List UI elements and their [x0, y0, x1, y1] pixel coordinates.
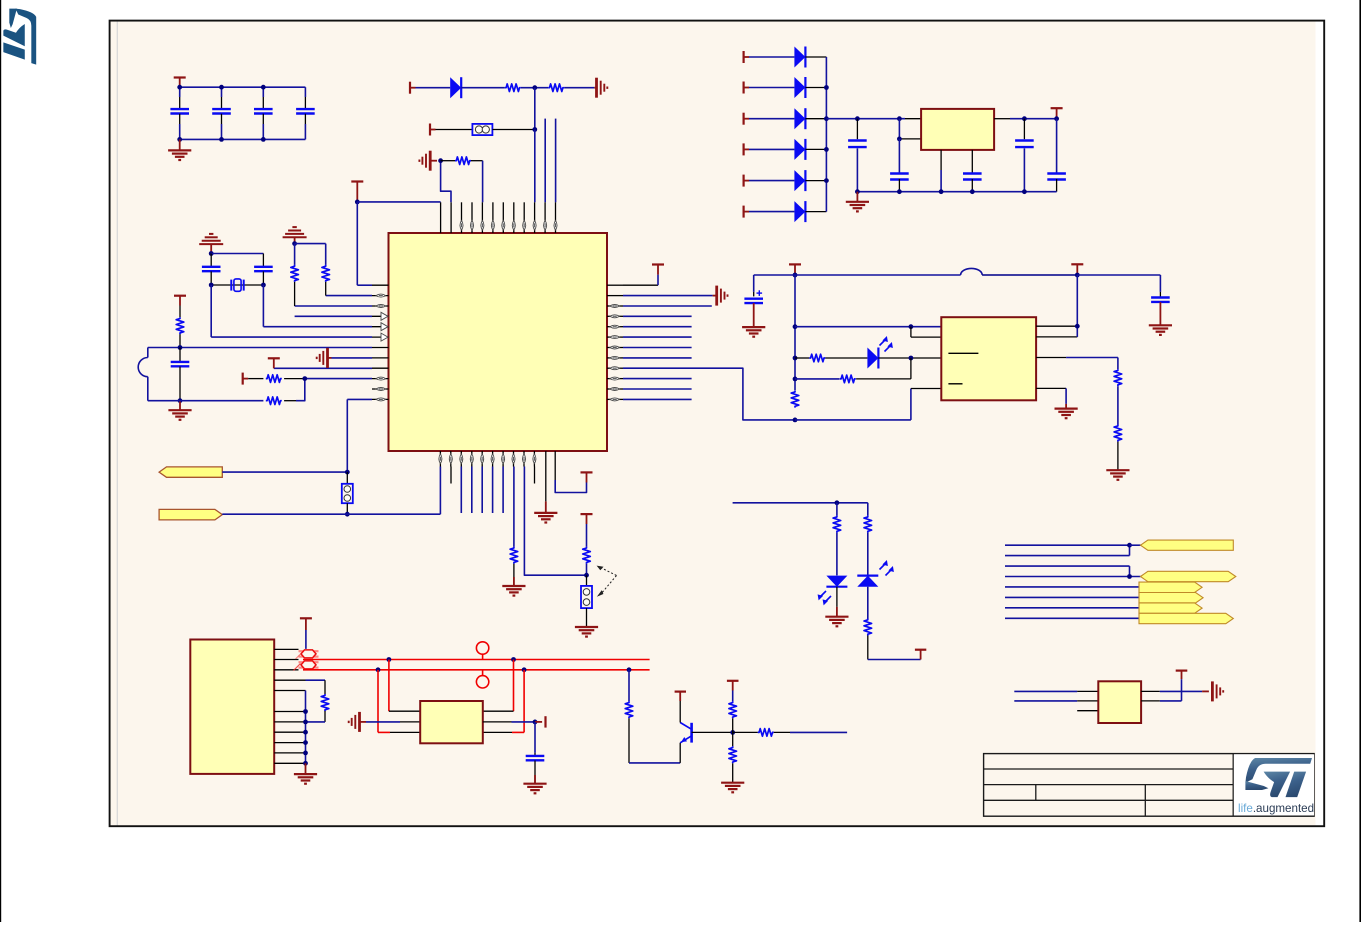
diode D1	[794, 47, 805, 68]
wire stub to D5	[749, 180, 794, 182]
wire U1 left row10 from R7	[305, 378, 372, 380]
wire R8 elbow up	[296, 379, 305, 401]
ground connector	[294, 763, 317, 783]
resistor R4	[322, 244, 330, 296]
wire floating U1 top pin 12	[555, 119, 557, 203]
wire row1 to flag	[1130, 544, 1141, 546]
power stub diode D4	[744, 143, 750, 155]
ground divider	[1106, 470, 1129, 480]
wire U1 right row4	[623, 315, 692, 317]
wire U1 bottom pin10 stub	[534, 467, 536, 484]
power stub jumper row	[430, 124, 436, 136]
earth ground crystal left	[199, 234, 223, 254]
node bottom rail junctions	[855, 189, 1027, 194]
node row10 junction	[302, 376, 307, 381]
node diode rail junctions	[824, 85, 829, 183]
wire flag1 to node	[222, 471, 347, 473]
capacitor C2	[212, 87, 231, 139]
wire U1 left row2 from R4	[326, 295, 372, 297]
wire U3 pin3 to divider	[1036, 358, 1118, 370]
node opto bus J3	[793, 356, 798, 361]
ground regulator rail	[846, 192, 869, 212]
power flag USB VBUS	[300, 618, 312, 649]
wire R1 to node	[521, 87, 548, 89]
power bars symbol right of R2	[597, 78, 608, 98]
power flag T1	[581, 471, 593, 473]
wire R19 to bus	[306, 711, 326, 722]
wire U3 pin4 to ground	[1036, 388, 1066, 408]
power flag U5	[1141, 671, 1187, 701]
node crystal top	[209, 251, 214, 256]
node harness row4 junction	[1127, 574, 1132, 579]
resistor R8	[266, 397, 296, 405]
wire crystal row	[211, 284, 263, 286]
power flag U2 output	[1051, 108, 1063, 119]
wire U2 bottom pin1	[940, 150, 942, 192]
wire R18 to power	[868, 659, 921, 661]
wire crystal left to U1 row6	[210, 285, 212, 337]
wire LED1 to opto pin3	[878, 357, 941, 359]
wire U5 input2	[1014, 700, 1098, 702]
node cap bank bottom junctions	[177, 137, 265, 142]
ground C15	[523, 775, 546, 793]
wire base to R23	[733, 731, 758, 733]
wire D1 to rail	[805, 56, 826, 58]
wire DP to ESD pin1	[389, 660, 420, 712]
wire diode row left	[416, 87, 451, 89]
wire harness row5	[1005, 586, 1139, 588]
resistor R21	[729, 701, 737, 718]
ground U1 bottom pin11	[534, 467, 557, 523]
power flag LED chain	[915, 650, 926, 660]
wire U1 bottom stub 5	[481, 467, 483, 514]
wire U5 out to bars	[1141, 690, 1209, 692]
test point TP2	[476, 670, 488, 688]
wire U1 bottom pin9 net	[524, 467, 586, 576]
wire DM to ESD right pin3	[483, 670, 524, 733]
wire U1 left row4 floating	[295, 315, 372, 317]
wire U2 output	[994, 118, 1057, 120]
wire node down to U1 pin	[534, 130, 536, 203]
ground bars U1 top-left	[419, 151, 430, 171]
wire U5 input1	[1014, 690, 1098, 692]
wire stub to D4	[749, 148, 794, 150]
wire stub to jumper J1	[436, 129, 473, 131]
U1 left pin glyphs	[376, 294, 388, 401]
node opto pin3 junction	[909, 356, 914, 361]
resistor R12	[840, 375, 856, 383]
wire diode rail	[825, 57, 827, 212]
LED D13	[867, 336, 893, 369]
wire U1 right row7	[623, 347, 692, 349]
wire stub to D3	[749, 118, 794, 120]
resistor R20	[625, 701, 633, 718]
wire row7 vertical with hop	[138, 348, 148, 401]
net flag stack row7	[1139, 603, 1202, 613]
wire U1 left row5 from crystal right	[263, 326, 372, 328]
diode D3	[794, 108, 805, 129]
resistor R11	[795, 354, 825, 362]
power flag U3 right	[1071, 264, 1083, 275]
net flag OSC_OUT	[1141, 571, 1236, 581]
wire U1 bottom stub 7	[502, 467, 504, 514]
U1 right pins	[607, 285, 623, 399]
power stub diode D2	[744, 82, 750, 94]
node LED pair junction	[835, 500, 840, 505]
wire DM to R20	[628, 670, 630, 702]
wire U1 right row10	[623, 378, 692, 380]
capacitor C3	[254, 87, 273, 139]
node opto bus J5	[793, 418, 798, 423]
wire diode to R1	[461, 87, 505, 89]
wire R3 elbow to U1 top pin5	[471, 161, 483, 203]
wire R7 to node	[284, 378, 305, 380]
wire bottom rail	[148, 400, 264, 402]
schematic sheet background	[111, 22, 1316, 826]
node resistor top-left junction	[431, 158, 443, 163]
jumper J3	[581, 575, 592, 627]
wire stub to D2	[749, 87, 794, 89]
wire R20 to emitter	[629, 718, 680, 763]
node base junction	[730, 730, 735, 735]
power flag VDD U1 left	[351, 182, 363, 202]
resistor R7	[266, 375, 282, 383]
power flag R6 top	[174, 296, 186, 306]
node opto top rail left	[793, 273, 798, 278]
wire U1 bottom pin2 stub	[450, 467, 452, 484]
capacitor C1	[170, 87, 189, 139]
power stub diode D6	[744, 206, 750, 218]
wire floating U1 top pin 11	[544, 119, 546, 203]
wire bus to R12	[795, 378, 840, 380]
ST logo (title block)	[1245, 758, 1312, 797]
jumper J1	[472, 124, 492, 135]
U3 inside pin marks	[948, 353, 978, 384]
sheet inner margin line	[116, 22, 118, 826]
wire D3 to rail	[805, 118, 826, 120]
resistor R14	[1114, 369, 1122, 386]
resistor R2	[548, 84, 564, 92]
wire node to R3	[441, 160, 455, 162]
U1 bottom pin glyphs	[439, 454, 536, 464]
diode D6	[794, 201, 805, 222]
resistor R19	[321, 694, 329, 711]
wire J1 to node	[492, 129, 534, 131]
node crystal row right	[261, 283, 266, 288]
resistor R3	[455, 157, 471, 165]
title block row lines	[984, 769, 1234, 800]
capacitor C9	[890, 139, 909, 192]
U1 left pins	[372, 285, 389, 399]
capacitor C6 crystal	[254, 254, 273, 286]
wire ground to ESD pin2	[366, 721, 420, 723]
power flag base pullup	[727, 681, 739, 702]
wire C9 elbow to reg pin2	[899, 119, 921, 139]
node flag1 junction	[345, 470, 350, 475]
sheet frame	[110, 21, 1325, 827]
wire cap bank bottom rail	[180, 138, 306, 140]
diode D2	[794, 77, 805, 98]
wire node down to jumper row	[534, 88, 536, 130]
node jumper row junction	[532, 127, 537, 132]
wire stub to D1	[749, 56, 794, 58]
node opto bus J4	[793, 377, 798, 382]
wire opto top rail	[754, 268, 1078, 275]
power flag T2	[581, 514, 593, 524]
capacitor C4	[296, 87, 315, 139]
power elbow U1 bottom pin12	[555, 467, 586, 493]
power flag U1 row9	[268, 358, 280, 368]
capacitor C8	[848, 119, 867, 192]
wire R21 to base	[732, 718, 734, 732]
resistor R23	[758, 729, 774, 737]
ground D14	[825, 617, 848, 627]
net flag stack row8	[1139, 613, 1233, 623]
power flag Q1 collector	[675, 692, 686, 723]
resistor R9	[510, 467, 518, 586]
node U2 output T junction	[1054, 116, 1059, 121]
node trimmer junction	[584, 573, 589, 578]
capacitor C15	[526, 722, 545, 784]
wire crystal top rail	[211, 253, 263, 255]
resistor R5	[291, 244, 299, 306]
resistor R13	[791, 391, 799, 408]
power flag opto	[789, 264, 801, 275]
wire U1 right row2 to bars	[623, 295, 716, 297]
power stub VBUS diode row	[410, 82, 416, 94]
U1 right pin glyphs	[610, 305, 620, 401]
sheet white right margin	[1316, 22, 1324, 826]
common mode filter Z1	[294, 650, 319, 671]
wire R14 to R15	[1117, 386, 1119, 425]
wire Q1 base	[692, 731, 733, 733]
node connector bus junctions	[303, 709, 308, 766]
power net U1 right row1	[623, 265, 664, 286]
wire pin4 elbow	[306, 680, 326, 694]
ground C7	[168, 401, 191, 420]
wire harness row1	[1005, 544, 1130, 546]
ground cap bank	[168, 139, 191, 160]
wire U1 left row3 from R5	[295, 305, 372, 307]
page left edge line	[0, 0, 2, 922]
transistor Q1	[680, 723, 691, 743]
resistor R6	[176, 306, 184, 348]
wire U1 right row6	[623, 336, 692, 338]
logo cell background	[1234, 754, 1314, 815]
wire connector pin bus	[305, 691, 307, 764]
ground R9	[502, 577, 525, 596]
wire harness row6	[1005, 596, 1139, 598]
wire harness row3	[1005, 566, 1130, 576]
wire stub to R7	[248, 378, 263, 380]
wire stub to D6	[749, 211, 794, 213]
power stub diode D3	[744, 113, 750, 125]
node cap bank top junctions	[177, 85, 265, 90]
capacitor C5 crystal	[202, 254, 221, 286]
wire bus to opto pin1	[795, 326, 941, 328]
node DP junctions	[387, 657, 516, 662]
resistor R18	[864, 587, 872, 660]
wire USB DP rail	[303, 659, 650, 661]
node DM junctions	[376, 667, 632, 672]
power bars U1 right row2	[717, 286, 728, 306]
ground C13	[742, 327, 765, 337]
connector J4 pins	[274, 649, 305, 763]
capacitor C14	[1151, 292, 1170, 325]
earth ground resistor pair	[283, 227, 307, 244]
wire R15 to ground	[1117, 442, 1119, 470]
node ESD vdd junction	[533, 720, 538, 725]
capacitor C10	[963, 150, 982, 192]
wire crystal right to U1 row5	[262, 285, 264, 327]
wire harness row8	[1005, 617, 1139, 619]
resistor R22	[729, 732, 737, 763]
node resistor pair top	[292, 241, 297, 246]
wire DP to ESD right pin1	[483, 660, 514, 712]
power stub U1 row10	[243, 373, 249, 385]
wire U1 bottom pin1 to flag2 net	[439, 467, 441, 515]
wire opto bus	[794, 275, 796, 390]
node crystal row left	[209, 283, 214, 288]
title block outline	[984, 754, 1315, 817]
ground ESD left	[349, 712, 366, 732]
page right edge line	[1359, 0, 1361, 922]
capacitor C12	[1047, 119, 1066, 192]
port flag PA14	[159, 509, 222, 520]
wire U1 row12 down	[346, 399, 348, 472]
resistor R16	[833, 503, 841, 576]
node C11 top	[1022, 116, 1027, 121]
wire rail to regulator	[826, 118, 921, 120]
wire U1 left row7 long	[148, 347, 372, 349]
resistor R17	[864, 503, 872, 576]
wire R23 out	[774, 731, 847, 733]
wire elbow resistor node to U1 top pin2	[441, 161, 451, 203]
wire resistor pair top rail	[295, 243, 326, 245]
node reg pin2 elbow	[897, 137, 902, 142]
wire elbow to opto pin2	[911, 327, 941, 337]
wire R22 to ground	[732, 763, 734, 782]
ST logo (top-left, rotated)	[3, 9, 36, 65]
wire D5 to rail	[805, 180, 826, 182]
wire U1 right row12	[623, 398, 692, 400]
wire DM to ESD pin3	[378, 670, 420, 733]
connector J4 body	[190, 640, 274, 774]
wire R2 to power bars	[564, 87, 596, 89]
wire U1 right row8	[623, 357, 692, 359]
opto U3 body	[941, 317, 1036, 400]
node C9 top	[897, 116, 902, 121]
LED D14	[818, 576, 848, 606]
wire USB DM rail	[303, 669, 650, 671]
node bottom rail junction	[178, 398, 183, 403]
node row7 junction	[178, 345, 183, 350]
wire U1 right row5	[623, 326, 692, 328]
MCU U1 body	[389, 233, 608, 451]
wire U1 left row12 to jumper net	[347, 398, 372, 400]
node flag2 junction	[345, 512, 350, 517]
wire U1 left row6 from crystal left	[211, 336, 372, 338]
node opto bus J2	[793, 324, 798, 329]
ground C14	[1149, 325, 1172, 335]
node U3 right pin1	[1075, 324, 1080, 329]
port flag PA13	[159, 467, 222, 477]
wire U3 right pins to rail	[1036, 275, 1077, 337]
wire power to U1 top pin1	[357, 201, 440, 203]
net flag stack row6	[1139, 593, 1203, 603]
capacitor C13 polarized	[744, 275, 763, 327]
sensor U5 body	[1098, 681, 1141, 723]
node power U1 left	[355, 200, 360, 205]
node opto pin1 junction	[909, 324, 914, 329]
wire LED pair top	[733, 502, 868, 504]
net flag stack row5	[1139, 582, 1202, 592]
resistor R10	[583, 524, 591, 575]
wire harness row7	[1005, 607, 1139, 609]
LED D15	[857, 560, 894, 587]
wire U1 right row3	[623, 305, 712, 307]
wire U1 bottom stub 3	[460, 467, 462, 514]
life.augmented text	[1238, 802, 1314, 815]
wire ESD right pin2	[483, 721, 535, 723]
wire harness row2	[1005, 545, 1130, 555]
wire R11 to LED1	[825, 357, 867, 359]
power bars U1 row8	[317, 348, 332, 368]
jumper J2	[342, 472, 353, 514]
power stub ESD	[535, 716, 546, 727]
node C8 top	[855, 116, 860, 121]
resistor R1	[505, 84, 521, 92]
wire rail to C14	[1077, 275, 1160, 292]
wire flag2 row	[222, 513, 440, 515]
wire D14 to ground	[836, 587, 838, 617]
ESD protection U4 body	[420, 701, 483, 743]
wire U1 left row9 from power T	[274, 367, 372, 369]
wire U5 stub pin3	[1077, 710, 1098, 712]
ground J3	[575, 627, 598, 637]
wire J5 to opto pin4	[795, 389, 941, 420]
node harness row1 junction	[1127, 543, 1132, 548]
test point TP1	[476, 642, 488, 660]
capacitor C11	[1015, 119, 1034, 192]
power flag VDD cap bank	[174, 78, 186, 88]
U1 top pins	[441, 202, 556, 233]
wire regulator bottom rail	[857, 191, 1056, 193]
power stub diode D1	[744, 51, 750, 63]
wire U1 bottom stub 6	[492, 467, 494, 514]
wire U1 right row9 to opto	[623, 368, 795, 420]
regulator U2 body	[921, 109, 994, 150]
crystal Y1	[231, 279, 243, 291]
capacitor C7	[171, 348, 190, 401]
wire D6 to rail	[805, 211, 826, 213]
title block column lines	[1036, 754, 1233, 817]
ground base divider	[721, 783, 744, 793]
node U3 right rail	[1075, 273, 1080, 278]
svg-text:life.augmented: life.augmented	[1238, 802, 1314, 815]
wire U1 right row11	[623, 388, 692, 390]
wire D2 to rail	[805, 87, 826, 89]
resistor R15	[1114, 425, 1122, 442]
wire D4 to rail	[805, 148, 826, 150]
ground U3 pin4	[1055, 409, 1078, 419]
wire harness row4	[1005, 576, 1141, 578]
power bars U5	[1212, 681, 1223, 701]
diode D5	[794, 170, 805, 191]
wire power down to U1 left row1	[357, 202, 372, 285]
wire U1 bottom stub 4	[471, 467, 473, 514]
annotation arrows	[597, 566, 617, 597]
